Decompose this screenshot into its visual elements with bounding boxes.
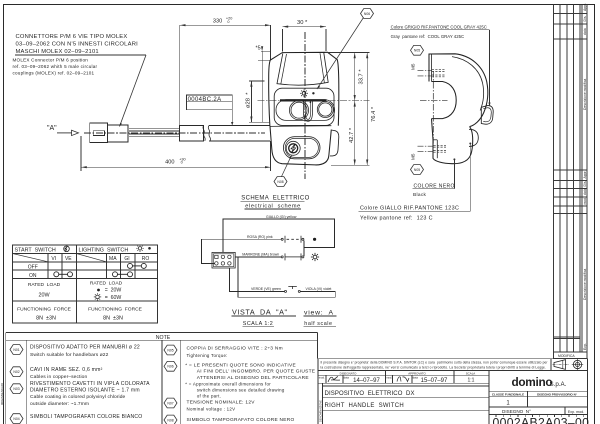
handlebar notch <box>432 82 457 119</box>
schematic connector J1 <box>212 252 235 268</box>
svg-text:DISEGNO N°: DISEGNO N° <box>502 409 531 414</box>
front view: vertical centerline <box>304 32 306 179</box>
svg-text:N07: N07 <box>167 401 173 405</box>
svg-text:MOLEX Connector P/M 6 position: MOLEX Connector P/M 6 position <box>13 58 89 63</box>
svg-text:CAVI IN RAME SEZ. 0,6 mm²: CAVI IN RAME SEZ. 0,6 mm² <box>30 367 103 373</box>
svg-text:MARRONE (MA) brown: MARRONE (MA) brown <box>242 253 279 257</box>
svg-text:CONNETTORE P/M 6 VIE TIPO MOLE: CONNETTORE P/M 6 VIE TIPO MOLEX <box>16 34 128 40</box>
switch function table <box>13 245 158 323</box>
note hexagon N07 <box>164 398 177 408</box>
svg-text:RATED LOAD: RATED LOAD <box>90 281 123 287</box>
position dot on panel <box>312 92 314 94</box>
svg-text:MODIFICA: MODIFICA <box>558 354 575 358</box>
body seam line <box>270 125 331 128</box>
svg-text:42.7 *: 42.7 * <box>349 127 355 143</box>
svg-text:GIALLO (GI) yellow: GIALLO (GI) yellow <box>266 215 297 219</box>
svg-text:30 *: 30 * <box>297 20 308 26</box>
revision strip labels <box>558 3 587 358</box>
svg-text:Dis.: Dis. <box>583 16 587 22</box>
svg-text:NOTE: NOTE <box>156 335 171 341</box>
svg-text:"A": "A" <box>47 125 57 132</box>
dimension 5 (top left) <box>256 45 271 122</box>
revision table strip (right edge) <box>554 5 588 359</box>
lighting switch contact (pos 2, closed) <box>281 253 304 260</box>
svg-text:76.4 *: 76.4 * <box>371 106 377 122</box>
svg-text:0004BC.2A: 0004BC.2A <box>188 97 222 103</box>
svg-text:Switch suitable for handlebars: Switch suitable for handlebars ø22 <box>30 352 109 358</box>
svg-text:0: 0 <box>181 161 183 165</box>
headlight symbol <box>311 253 319 261</box>
top dome <box>277 53 328 85</box>
svg-text:* = LE PRESENTI QUOTE SONO IND: * = LE PRESENTI QUOTE SONO INDICATIVE <box>185 363 296 369</box>
svg-text:outside diameter: ~1.7mm: outside diameter: ~1.7mm <box>30 401 89 407</box>
leader to connector <box>120 55 147 127</box>
balloon N06 top <box>361 9 374 19</box>
svg-text:Descrizione modifica: Descrizione modifica <box>583 79 587 110</box>
start button side lobe <box>469 129 478 146</box>
functioning force cells <box>17 306 143 321</box>
table diagonal cells <box>13 254 107 262</box>
cable sheath tube <box>180 126 270 141</box>
svg-text:03–09–2062 CON N'5 INNESTI CIR: 03–09–2062 CON N'5 INNESTI CIRCOLARI <box>16 42 139 48</box>
svg-text:data: data <box>583 28 587 35</box>
lever tab side <box>481 106 493 125</box>
svg-text:0002AB2A03-00: 0002AB2A03-00 <box>0 383 4 405</box>
svg-text:ON: ON <box>29 273 37 279</box>
note hexagon N04 <box>10 414 23 424</box>
svg-text:of the part.: of the part. <box>197 394 221 399</box>
svg-text:ø28 *: ø28 * <box>246 92 252 108</box>
svg-text:M5: M5 <box>411 63 416 70</box>
wire VIOLA <box>235 257 335 297</box>
svg-text:N05: N05 <box>414 168 420 172</box>
svg-text:DISEGNATO: DISEGNATO <box>340 371 358 375</box>
vista da A title <box>232 307 334 326</box>
schematic title <box>241 196 309 210</box>
balloon N08 <box>274 177 287 187</box>
slider panel <box>274 88 334 125</box>
svg-text:Black: Black <box>413 192 427 198</box>
svg-text:N01: N01 <box>13 348 19 352</box>
lighting symbol on panel <box>300 89 308 97</box>
svg-text:DISEGNO PROVVISORIO N°: DISEGNO PROVVISORIO N° <box>537 393 578 397</box>
svg-text:Colore GIALLO RIF.PANTONE 123C: Colore GIALLO RIF.PANTONE 123C <box>360 205 459 211</box>
svg-text:AI FINI DELL' INGOMBRO. PER QU: AI FINI DELL' INGOMBRO. PER QUOTE GIUSTE <box>197 369 315 375</box>
svg-text:Appr.: Appr. <box>583 170 587 178</box>
svg-text:M5: M5 <box>411 153 416 160</box>
start push button contact <box>285 286 301 292</box>
table contact circles ON row (MA-GI) <box>113 272 133 277</box>
svg-text:Exp.: Exp. <box>583 343 587 350</box>
label 0004BC.2A <box>186 95 233 125</box>
svg-text:ROSA (RO) pink: ROSA (RO) pink <box>247 235 273 239</box>
svg-text:SIMBOLI TAMPOGRAFATI COLORE BI: SIMBOLI TAMPOGRAFATI COLORE BIANCO <box>30 414 143 420</box>
wire VERDE <box>229 268 284 291</box>
left notes text <box>30 345 150 420</box>
svg-text:Descrizione modifica: Descrizione modifica <box>583 269 587 300</box>
svg-text:33.7 *: 33.7 * <box>358 69 364 85</box>
svg-text:N06: N06 <box>167 365 173 369</box>
lower housing <box>432 119 473 164</box>
svg-text:* = Approximate overall dimens: * = Approximate overall dimensions for <box>185 381 271 386</box>
svg-text:DISPOSITIVO ELETTRICO DX: DISPOSITIVO ELETTRICO DX <box>325 391 415 397</box>
svg-text:N05: N05 <box>414 49 420 53</box>
molex connector note <box>13 34 139 76</box>
svg-text:FUNCTIONING FORCE: FUNCTIONING FORCE <box>17 306 72 312</box>
svg-text:mod.: mod. <box>386 375 392 379</box>
svg-text:= 60W: = 60W <box>105 295 122 301</box>
right side lever tab <box>330 130 339 156</box>
lighting switch contact (pos 1, open dashed) <box>281 236 304 243</box>
svg-text:8N ±3N: 8N ±3N <box>103 315 123 321</box>
svg-text:N08: N08 <box>277 180 283 184</box>
svg-text:TENSIONE NOMINALE: 12V: TENSIONE NOMINALE: 12V <box>187 399 256 405</box>
svg-text:SCHEMA ELETTRICO: SCHEMA ELETTRICO <box>241 196 309 202</box>
svg-text:mod.: mod. <box>583 197 587 205</box>
wire ROSA <box>202 235 282 263</box>
svg-text:RIGHT HANDLE SWITCH: RIGHT HANDLE SWITCH <box>325 403 405 409</box>
svg-text:GI: GI <box>124 256 129 262</box>
NOTE box <box>6 332 318 424</box>
svg-text:Yellow pantone ref: 123 C: Yellow pantone ref: 123 C <box>360 215 433 221</box>
svg-text:la costruzione dell'oggetto ra: la costruzione dell'oggetto rappresentat… <box>321 366 546 370</box>
svg-text:COLORE NERO: COLORE NERO <box>414 184 455 190</box>
svg-text:VERDE (VE) green: VERDE (VE) green <box>251 287 281 291</box>
lighting slider knob <box>276 100 335 122</box>
svg-text:Il presente disegno e' proprie: Il presente disegno e' proprieta' della … <box>321 360 549 364</box>
note hexagon N03 <box>10 384 23 394</box>
svg-text:N05: N05 <box>167 348 173 352</box>
legal text <box>321 360 549 369</box>
gray leader down to lever <box>489 30 491 105</box>
rated load cells <box>28 281 123 301</box>
note hexagon N01 <box>10 345 23 355</box>
table contact circles OFF row (GI-RO) <box>128 263 147 268</box>
taillight dot symbol <box>313 238 316 241</box>
svg-text:400: 400 <box>165 159 174 165</box>
svg-text:RO: RO <box>142 256 150 262</box>
svg-text:Tightening Torque:: Tightening Torque: <box>187 353 228 358</box>
domino / classe grid <box>489 390 588 392</box>
M5 screw holes bottom (dashed) <box>434 145 447 152</box>
svg-text:1:1: 1:1 <box>468 378 475 384</box>
svg-text:0002AB2A03–00: 0002AB2A03–00 <box>493 416 590 424</box>
svg-text:N06: N06 <box>364 12 370 16</box>
svg-text:Appr.: Appr. <box>583 3 587 11</box>
start button <box>286 141 300 155</box>
cable break symbol <box>203 126 211 141</box>
svg-text:VIOLA (VI) violet: VIOLA (VI) violet <box>306 287 332 291</box>
wire GIALLO <box>223 215 335 253</box>
title text <box>319 391 590 424</box>
dates row text <box>319 371 476 384</box>
svg-text:Cables in copper–section: Cables in copper–section <box>30 374 87 380</box>
signatures <box>328 377 409 383</box>
svg-text:15–07–97: 15–07–97 <box>421 378 448 384</box>
M5 screw holes top (dashed) <box>432 70 445 77</box>
note hexagon N05 <box>164 345 177 355</box>
title block <box>318 359 588 424</box>
svg-text:8N ±3N: 8N ±3N <box>36 315 56 321</box>
svg-text:data: data <box>583 188 587 195</box>
lower body outline <box>270 126 331 165</box>
cable bundle <box>129 129 180 137</box>
svg-text:domino: domino <box>512 375 553 389</box>
svg-text:SCALA: SCALA <box>466 371 476 375</box>
svg-text:APPROVATO: APPROVATO <box>408 371 426 375</box>
svg-text:MASCHI MOLEX 02–09–2101: MASCHI MOLEX 02–09–2101 <box>16 49 99 55</box>
svg-text:ref. 03–09–2062 whith 5 male c: ref. 03–09–2062 whith 5 male circular <box>13 64 98 69</box>
gray color note <box>391 24 487 38</box>
balloon N05 top <box>411 45 424 55</box>
right notes text <box>185 346 315 423</box>
svg-text:Nominal voltage : 12V: Nominal voltage : 12V <box>187 406 236 411</box>
yellow color note with leader <box>359 143 472 212</box>
side view: clamp body <box>429 54 493 164</box>
svg-text:14–07–97: 14–07–97 <box>353 378 380 384</box>
note hexagon N06 <box>164 361 177 371</box>
side view: handlebar centerlines <box>420 71 448 145</box>
leader from N06 to light symbol <box>317 18 364 90</box>
svg-text:data: data <box>344 375 350 379</box>
right dimensions 33.7 / 42.7 / 76.4 <box>325 53 377 166</box>
svg-text:data: data <box>413 375 419 379</box>
balloon N05 bottom <box>411 165 424 175</box>
svg-text:view: A: view: A <box>304 309 334 316</box>
svg-text:Dis.: Dis. <box>583 181 587 187</box>
svg-text:Cable coating in colored polyv: Cable coating in colored polyvinyl chlor… <box>30 394 126 400</box>
dimension o28 <box>246 81 270 122</box>
svg-text:mod.: mod. <box>319 375 325 379</box>
svg-text:FUNCTIONING FORCE: FUNCTIONING FORCE <box>88 306 143 312</box>
svg-text:330: 330 <box>213 18 222 24</box>
molex connector P/M 6 <box>90 123 128 143</box>
dimension 30 (top) <box>282 20 326 52</box>
svg-text:Exp. mod.: Exp. mod. <box>568 410 584 414</box>
cable centerline <box>84 132 265 134</box>
svg-text:COPPIA DI SERRAGGIO VITE : 2÷3: COPPIA DI SERRAGGIO VITE : 2÷3 Nm <box>187 346 283 352</box>
svg-text:RIVESTIMENTO CAVETTI IN VIPLA: RIVESTIMENTO CAVETTI IN VIPLA COLORATA <box>30 381 150 387</box>
svg-text:20W: 20W <box>38 293 50 299</box>
svg-text:N02: N02 <box>13 370 19 374</box>
svg-text:LIGHTING SWITCH: LIGHTING SWITCH <box>79 247 129 253</box>
svg-text:1: 1 <box>506 401 510 407</box>
svg-text:Gray pantone ref: COOL GRAY: Gray pantone ref: COOL GRAY 425C <box>391 34 464 39</box>
common bus <box>303 240 305 256</box>
svg-text:CLASSE FUNZIONALE: CLASSE FUNZIONALE <box>492 393 524 397</box>
svg-text:= 20W: = 20W <box>105 288 122 294</box>
svg-text:N03: N03 <box>13 387 19 391</box>
start button panel <box>283 137 320 159</box>
svg-text:VISTA DA "A": VISTA DA "A" <box>232 307 288 316</box>
front view: upper body outline <box>269 52 339 165</box>
black color note with leader <box>413 158 456 188</box>
svg-text:couplings (MOLEX) ref. 02–09–2: couplings (MOLEX) ref. 02–09–2101 <box>13 71 95 76</box>
svg-text:RATED LOAD: RATED LOAD <box>28 282 61 288</box>
leader N08 front <box>282 155 292 176</box>
first-angle projection symbol <box>553 359 584 370</box>
svg-text:OFF: OFF <box>28 264 38 270</box>
view arrow A <box>47 125 79 136</box>
svg-text:VE: VE <box>65 256 72 262</box>
svg-text:SIMBOLO TAMPOGRAFATO COLORE NE: SIMBOLO TAMPOGRAFATO COLORE NERO <box>187 417 295 423</box>
start symbol in header <box>64 246 70 252</box>
domino logo <box>512 375 567 389</box>
svg-text:switch dimensions see detailed: switch dimensions see detailed drawing <box>197 388 285 393</box>
note hexagon N08 <box>164 415 177 424</box>
dimension 330 <box>180 17 271 126</box>
table header text <box>15 247 150 278</box>
svg-text:DISPOSITIVO ADATTO PER MANUBRI: DISPOSITIVO ADATTO PER MANUBRI ø 22 <box>30 345 140 351</box>
svg-text:DIAMETRO ESTERNO ISOLANTE ~ 1.: DIAMETRO ESTERNO ISOLANTE ~ 1.7 mm <box>30 388 140 394</box>
svg-text:VI: VI <box>51 256 56 262</box>
svg-text:DENOMINAZIONE: DENOMINAZIONE <box>319 400 323 422</box>
dimension 400 <box>81 136 271 171</box>
svg-text:*5: *5 <box>256 45 261 51</box>
front view: slider horizontal centerline <box>258 100 370 102</box>
svg-text:0: 0 <box>227 20 229 24</box>
wire MARRONE <box>235 253 281 257</box>
svg-text:MA: MA <box>109 256 117 262</box>
svg-text:N08: N08 <box>167 418 173 422</box>
lighting symbols in header <box>136 245 151 252</box>
svg-text:N04: N04 <box>13 417 19 421</box>
dates row grid <box>318 374 489 376</box>
svg-text:Colore GRIGIO RIF.PANTONE COOL: Colore GRIGIO RIF.PANTONE COOL GRAY 425C <box>391 24 487 29</box>
svg-text:S.p.A.: S.p.A. <box>550 381 567 388</box>
svg-text:START SWITCH: START SWITCH <box>15 247 56 253</box>
svg-text:ATTENERSI AL DISEGNO DEL PARTI: ATTENERSI AL DISEGNO DEL PARTICOLARE <box>197 375 309 381</box>
denominazione rows <box>322 383 324 424</box>
note hexagon N02 <box>10 367 23 377</box>
table contact circles ON row (VI-VE) <box>54 272 73 277</box>
number cell ticks <box>496 415 584 417</box>
